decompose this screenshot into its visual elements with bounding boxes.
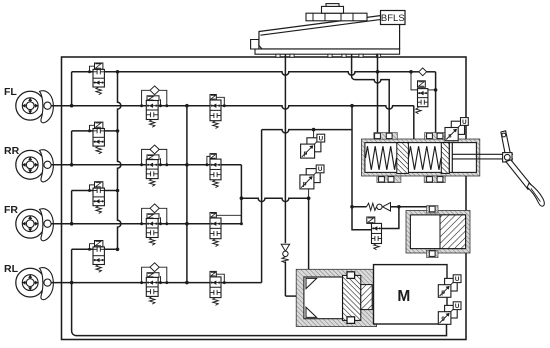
svg-text:RL: RL [4,263,19,275]
svg-text:RR: RR [4,145,20,157]
svg-text:9: 9 [441,316,445,323]
svg-text:p: p [441,289,445,296]
svg-text:U: U [318,166,323,173]
svg-text:U: U [462,119,467,126]
svg-text:U: U [319,135,324,142]
svg-text:U: U [455,303,460,310]
svg-text:p: p [304,150,308,157]
svg-text:BFLS: BFLS [381,13,405,24]
svg-text:FR: FR [4,204,18,216]
svg-text:M: M [397,288,410,305]
svg-text:p: p [303,181,307,188]
svg-text:FL: FL [4,86,17,98]
svg-text:s: s [448,133,452,140]
svg-text:U: U [455,276,460,283]
